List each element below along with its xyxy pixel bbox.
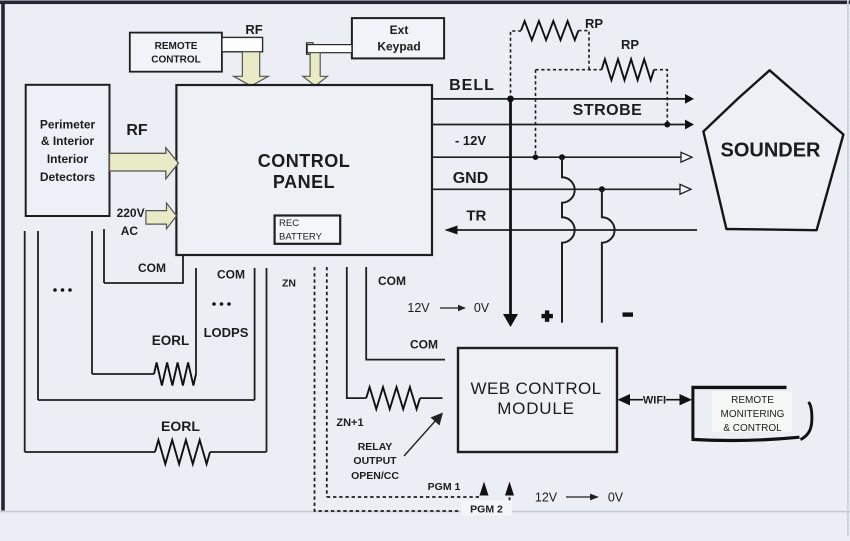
PGM1 arrowhead up: [480, 482, 489, 496]
svg-text:EORL: EORL: [152, 333, 190, 348]
wire -12V line: [433, 156, 681, 158]
svg-text:RF: RF: [126, 122, 148, 139]
web control module box: [458, 348, 617, 452]
svg-text:12V: 12V: [535, 491, 558, 505]
svg-text:0V: 0V: [474, 301, 490, 315]
svg-text:& CONTROL: & CONTROL: [723, 423, 782, 434]
svg-text:0V: 0V: [608, 491, 624, 505]
wire EORL2 lead right: [210, 451, 267, 453]
wire module COM bracket: [366, 267, 445, 360]
border frame top: [0, 1, 850, 5]
wire w2 from detectors: [37, 231, 39, 400]
border frame right faint: [847, 0, 849, 536]
resistor ZN+1 relay: [366, 387, 420, 409]
wire ZN+1 terminal: [347, 267, 366, 398]
svg-text:LODPS: LODPS: [204, 325, 249, 340]
wire bar remote-control to arrow: [222, 37, 263, 51]
12V to 0V label top: [407, 301, 489, 315]
svg-text:& Interior: & Interior: [41, 134, 95, 148]
wire thick vertical from BELL down: [509, 99, 512, 315]
svg-text:Keypad: Keypad: [377, 40, 420, 54]
WIFI double arrow: [618, 394, 693, 407]
dashed wire RP right down: [578, 31, 589, 70]
svg-text:RP: RP: [621, 37, 639, 52]
node GND junction: [599, 186, 605, 192]
node -12V junction 2: [559, 154, 565, 160]
detectors box: Perimeter & Interior Detectors: [26, 85, 110, 216]
resistor RP (lower): [602, 59, 654, 80]
wire w1 from detectors: [24, 231, 26, 452]
border frame left: [1, 1, 5, 511]
svg-text:REMOTE: REMOTE: [155, 41, 198, 52]
PGM2 arrowhead up: [505, 482, 514, 496]
wire w4 from detectors (COM): [103, 229, 105, 283]
block arrow 220V AC to panel: [146, 203, 177, 229]
svg-text:12V: 12V: [407, 301, 430, 315]
border frame bottom faint: [0, 511, 850, 513]
svg-text:EORL: EORL: [161, 418, 200, 434]
svg-text:ZN+1: ZN+1: [336, 417, 363, 429]
svg-text:SOUNDER: SOUNDER: [720, 140, 821, 162]
wire GND line: [433, 188, 680, 190]
12V to 0V label bottom: [535, 491, 624, 505]
svg-text:PGM 1: PGM 1: [428, 481, 461, 493]
wire w3 from detectors: [91, 231, 93, 374]
dashed wire horizontal to RP2: [536, 69, 602, 71]
svg-text:RELAY: RELAY: [358, 441, 393, 453]
svg-text:OPEN/CC: OPEN/CC: [351, 470, 399, 482]
wire +12V vertical with hops: [562, 157, 575, 323]
-12V open arrowhead: [681, 152, 692, 162]
wire zone terminal A: [195, 268, 197, 374]
ext keypad box: [352, 18, 444, 58]
svg-text:COM: COM: [217, 268, 245, 282]
svg-text:220V: 220V: [117, 206, 145, 220]
wire bar keypad to arrow: [307, 43, 352, 55]
wire EORL2 lead left: [25, 451, 155, 453]
node -12V junction 1: [533, 154, 539, 160]
dashed wire PGM1 horizontal: [327, 496, 479, 498]
dashed wire PGM2 riser: [509, 496, 511, 511]
wire EORL1 lead left: [92, 373, 154, 375]
plus label: [542, 310, 553, 321]
minus label: [623, 312, 634, 316]
svg-text:MONITERING: MONITERING: [721, 409, 785, 420]
svg-text:STROBE: STROBE: [573, 102, 643, 119]
svg-text:Detectors: Detectors: [40, 170, 96, 184]
wire GND vertical with hop: [602, 189, 615, 322]
block arrow RF detectors to panel: [110, 148, 179, 179]
resistor EORL (lower): [155, 440, 210, 464]
svg-text:GND: GND: [453, 170, 489, 187]
svg-text:MODULE: MODULE: [497, 399, 575, 418]
dashed wire PGM1 vertical: [326, 267, 328, 497]
svg-text:COM: COM: [410, 338, 438, 352]
block arrow down from keypad: [303, 53, 328, 86]
control panel box: [176, 85, 432, 255]
annotation arrow to relay contact: [404, 413, 443, 457]
STROBE arrowhead: [685, 120, 694, 130]
remote control box: [130, 33, 222, 72]
svg-text:CONTROL: CONTROL: [151, 54, 200, 65]
dashed wire down to -12V: [535, 70, 537, 158]
wire loop2 horizontal: [38, 399, 255, 401]
block arrow down from remote control: [234, 52, 269, 86]
sounder pentagon: [703, 70, 843, 230]
svg-text:RP: RP: [585, 16, 603, 31]
PGM 2 label: [461, 501, 512, 516]
rec battery box: [275, 216, 341, 244]
node BELL junction: [507, 96, 514, 103]
svg-text:PANEL: PANEL: [273, 172, 335, 192]
dashed wire RP2 right down to STROBE: [654, 70, 667, 125]
svg-text:Ext: Ext: [390, 23, 409, 37]
svg-text:BATTERY: BATTERY: [279, 232, 323, 243]
svg-text:PGM 2: PGM 2: [470, 504, 503, 516]
wire COM bracket to panel: [104, 256, 183, 283]
svg-text:COM: COM: [138, 261, 166, 275]
wire TR line: [456, 229, 697, 231]
wire BELL line: [433, 98, 686, 100]
svg-text:WIFI: WIFI: [643, 395, 666, 407]
svg-text:RF: RF: [245, 22, 262, 37]
svg-text:REC: REC: [279, 218, 299, 229]
wire ZN terminal: [266, 268, 268, 452]
svg-text:REMOTE: REMOTE: [731, 395, 774, 406]
RELAY OUTPUT OPEN/CC label: [351, 441, 399, 482]
svg-text:Perimeter: Perimeter: [40, 118, 96, 132]
svg-text:TR: TR: [466, 208, 486, 225]
svg-text:OUTPUT: OUTPUT: [353, 455, 397, 467]
svg-text:AC: AC: [121, 224, 139, 238]
resistor EORL (upper): [154, 363, 196, 386]
svg-text:- 12V: - 12V: [455, 133, 486, 148]
wire zone terminal B: [254, 268, 256, 400]
node STROBE junction: [664, 122, 670, 128]
svg-text:WEB CONTROL: WEB CONTROL: [471, 379, 602, 398]
dashed wire BELL up to RP: [511, 31, 522, 99]
ellipsis dots detectors: [53, 288, 72, 292]
BELL arrowhead: [685, 94, 694, 104]
svg-text:ZN: ZN: [282, 278, 296, 290]
dashed wire PGM2 vertical: [315, 267, 506, 511]
TR arrowhead left: [445, 226, 458, 235]
remote monitoring box: [692, 386, 812, 440]
GND open arrowhead: [680, 184, 691, 194]
svg-text:CONTROL: CONTROL: [258, 151, 351, 171]
wire STROBE line: [433, 124, 686, 126]
ellipsis dots zones: [212, 302, 231, 306]
svg-text:Interior: Interior: [47, 152, 89, 166]
resistor RP (upper): [521, 21, 578, 40]
svg-text:BELL: BELL: [449, 77, 495, 94]
wire ZN+1 lead right: [420, 397, 443, 399]
arrowhead down (12V to 0V drop): [503, 314, 518, 327]
svg-text:COM: COM: [378, 274, 406, 288]
